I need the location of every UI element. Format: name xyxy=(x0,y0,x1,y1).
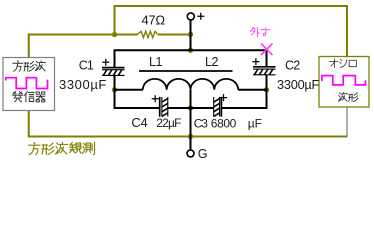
svg-text:C1: C1 xyxy=(79,59,94,73)
svg-text:22µF: 22µF xyxy=(156,116,181,130)
svg-text:6800: 6800 xyxy=(211,116,237,130)
svg-text:3300µF: 3300µF xyxy=(59,77,107,92)
svg-text:C4: C4 xyxy=(131,115,147,130)
svg-text:G: G xyxy=(198,147,208,161)
svg-text:L2: L2 xyxy=(205,55,218,69)
svg-text:C2: C2 xyxy=(285,59,300,73)
svg-text:L1: L1 xyxy=(149,55,162,69)
svg-text:C3: C3 xyxy=(194,116,208,130)
svg-text:3300µF: 3300µF xyxy=(277,78,320,92)
svg-text:µF: µF xyxy=(248,116,262,130)
svg-text:47Ω: 47Ω xyxy=(142,13,166,28)
